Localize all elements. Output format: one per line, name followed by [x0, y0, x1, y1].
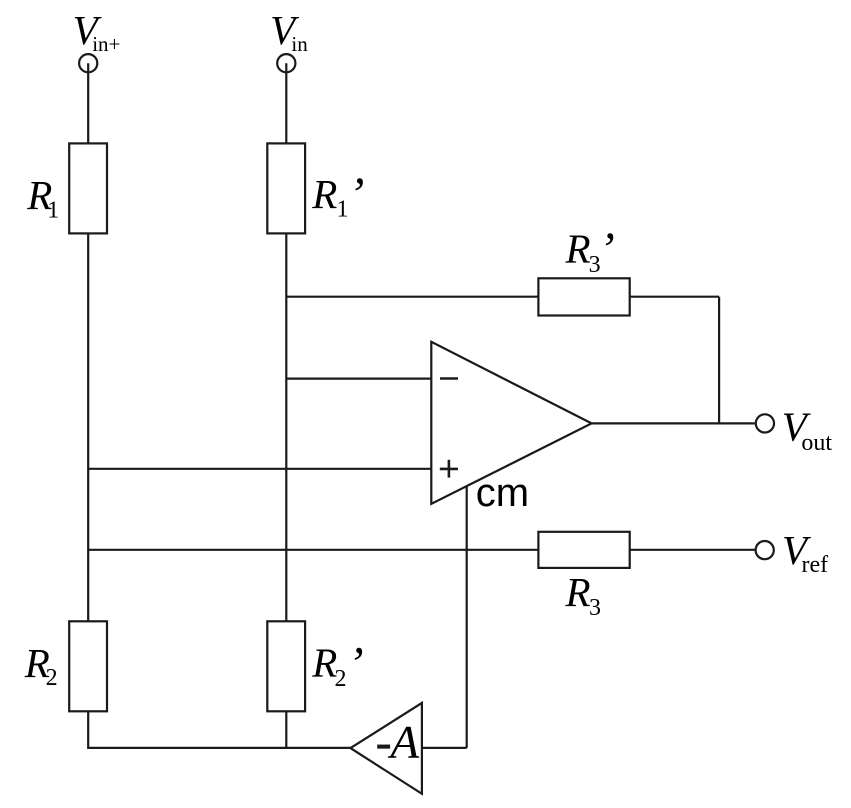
dash of -A label [377, 745, 390, 749]
wire: Vin+ stem from terminal into R1 [87, 63, 89, 144]
op-amp plus sign [440, 468, 458, 471]
svg-text:1: 1 [47, 198, 59, 224]
svg-text:’: ’ [599, 223, 615, 276]
svg-text:R: R [311, 171, 337, 217]
svg-text:R: R [565, 569, 591, 615]
wire: feedback left segment to R3' [286, 296, 539, 298]
svg-text:1: 1 [337, 196, 349, 222]
node Vref terminal circle [756, 541, 774, 559]
wire: inverting input [286, 378, 431, 380]
node Vout terminal circle [756, 414, 774, 432]
resistor R1' [267, 143, 305, 233]
op-amp U1 [431, 342, 591, 504]
svg-text:R: R [565, 226, 591, 272]
node Vin+ terminal circle [79, 54, 97, 72]
svg-text:’: ’ [348, 168, 364, 221]
svg-text:2: 2 [46, 665, 58, 691]
wire: -A input stub [422, 747, 467, 749]
svg-text:A: A [387, 717, 419, 769]
svg-text:3: 3 [589, 595, 601, 621]
wire: Vin stem from terminal into R1' [285, 63, 287, 144]
wire: op-amp output to Vout terminal [592, 422, 755, 424]
wire: column B from R2' to bottom wire [285, 711, 287, 750]
wire: column B between R1' and R2' [285, 233, 287, 623]
svg-text:in: in [291, 32, 308, 56]
svg-text:’: ’ [348, 637, 364, 690]
svg-text:out: out [801, 430, 832, 456]
resistor R3 [538, 532, 629, 568]
svg-text:in+: in+ [92, 32, 120, 56]
svg-text:2: 2 [335, 666, 347, 692]
wire: column A between R1 and R2 [87, 233, 89, 623]
resistor R2 [69, 621, 107, 711]
wire: non-inverting input [88, 468, 431, 470]
op-amp minus sign [440, 377, 458, 380]
wire: feedback right segment from R3' [629, 296, 720, 298]
wire: feedback vertical drop to output node [718, 297, 720, 424]
svg-text:R: R [311, 639, 337, 685]
inverting amp -A [351, 703, 422, 794]
wire: column A from R2 down and bottom wire to -A output [88, 711, 350, 748]
resistor R1 [69, 143, 107, 233]
resistor R2' [267, 621, 305, 711]
node Vin terminal circle [277, 54, 295, 72]
wire: Vref right segment from R3 to terminal [629, 549, 755, 551]
resistor R3' [538, 278, 629, 315]
svg-text:ref: ref [802, 552, 829, 578]
wire: cm feedback vertical from op-amp belly [466, 487, 468, 748]
svg-text:cm: cm [476, 471, 529, 515]
wire: Vref left segment to R3 [88, 549, 539, 551]
